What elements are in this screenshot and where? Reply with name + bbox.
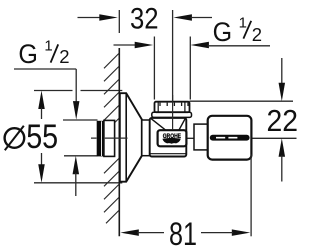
centerline extension (32 right / valve axis vertical) xyxy=(172,10,174,130)
GROHE badge xyxy=(158,130,187,146)
inlet pipe bottom extension line xyxy=(64,155,98,157)
dimension 32 arrow left (points right) xyxy=(99,14,118,21)
top nut thread ticks xyxy=(160,103,188,106)
top nut xyxy=(155,102,190,113)
G1/2 top leader line to label xyxy=(207,45,270,47)
G1/2 top extension line right xyxy=(189,37,191,100)
dia55 top extension line xyxy=(34,90,122,92)
G1/2 top arrow right (points left) xyxy=(190,42,209,49)
dim 22 bottom ext / axis line right xyxy=(187,137,297,139)
dia55 up arrow shaft xyxy=(41,108,43,120)
svg-text:1: 1 xyxy=(44,37,52,54)
dim 81 line right segment xyxy=(201,232,233,234)
top nut flange xyxy=(152,112,192,117)
dim 22 up arrow xyxy=(279,138,286,157)
dimension 32 extension line left xyxy=(118,10,120,33)
G1/2 top arrow left (points right) xyxy=(135,42,154,49)
dim 81 right extension line xyxy=(250,155,252,237)
inlet pipe bottom arrow shaft xyxy=(75,173,77,196)
top nut facet lines xyxy=(158,102,185,111)
dim 81 arrow right (points right at extension line) xyxy=(232,229,251,236)
label G 1/2 left xyxy=(18,37,69,69)
dimension 32 arrow right (points left) xyxy=(173,14,192,21)
neck chamfer V left xyxy=(151,119,166,130)
G1/2 top extension line left xyxy=(153,37,155,100)
svg-text:81: 81 xyxy=(169,216,197,250)
neck chamfer V right xyxy=(179,119,185,130)
svg-text:G: G xyxy=(18,39,38,69)
svg-text:2: 2 xyxy=(252,24,262,45)
label diameter symbol xyxy=(5,126,25,150)
dim 22 down arrow xyxy=(279,83,286,102)
axis centerline through inlet xyxy=(91,137,128,139)
dim 22 down arrow shaft xyxy=(281,58,283,84)
dia55 bottom extension line xyxy=(34,182,122,184)
dia55 down arrow xyxy=(38,164,45,183)
dia55 down arrow shaft xyxy=(41,153,43,166)
svg-text:55: 55 xyxy=(26,118,58,156)
dim 81 arrow left (points left at wall) xyxy=(120,229,139,236)
main body xyxy=(150,118,187,157)
svg-text:22: 22 xyxy=(267,103,299,138)
svg-text:G: G xyxy=(213,17,233,47)
inlet thread (black block) xyxy=(97,121,104,157)
label G 1/2 top right xyxy=(213,14,262,46)
G1/2 left leader underline xyxy=(14,68,76,70)
wall line xyxy=(118,48,120,236)
centerline through nut xyxy=(172,95,174,130)
dim 81 line left segment xyxy=(137,232,164,234)
escutcheon plate edge xyxy=(125,93,127,182)
handle knob xyxy=(208,116,252,160)
dimension 32 line left segment xyxy=(78,17,102,19)
wall hatching lower xyxy=(104,158,119,223)
G1/2 top dim line left segment xyxy=(114,44,137,46)
wall hatching upper xyxy=(104,53,119,131)
svg-text:2: 2 xyxy=(59,46,69,67)
knob groove band xyxy=(210,135,250,141)
dim 22 up arrow shaft xyxy=(281,155,283,181)
G1/2 left leader vertical xyxy=(75,69,77,103)
body left pipe xyxy=(142,120,150,156)
knob groove dashes xyxy=(216,137,237,139)
inlet pipe top extension line xyxy=(63,119,98,121)
inlet pipe bottom arrow (points up) xyxy=(73,156,80,175)
stem between body and knob xyxy=(194,124,208,150)
svg-text:1: 1 xyxy=(239,14,247,31)
inlet collar xyxy=(104,120,115,156)
dia55 up arrow xyxy=(38,91,45,110)
dim 22 top extension line xyxy=(190,100,294,102)
escutcheon (wall flange cone) xyxy=(120,93,142,182)
body bottom step line xyxy=(151,153,186,155)
G1/2 left leader arrow (points down) xyxy=(73,101,80,120)
dimension 32 line right segment xyxy=(191,17,213,19)
svg-text:32: 32 xyxy=(130,2,159,35)
